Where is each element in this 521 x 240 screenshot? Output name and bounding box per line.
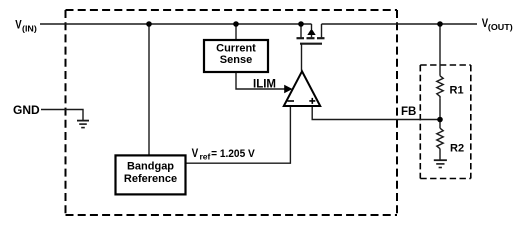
svg-text:Current: Current [216,42,256,54]
svg-text:Bandgap: Bandgap [127,161,174,173]
svg-text:Reference: Reference [124,173,177,185]
svg-text:(IN): (IN) [22,23,37,33]
svg-text:Sense: Sense [220,54,252,66]
svg-text:V: V [192,148,199,160]
svg-text:V: V [15,20,22,32]
svg-text:= 1.205 V: = 1.205 V [211,148,255,160]
svg-text:GND: GND [13,103,40,117]
svg-text:R2: R2 [450,143,464,155]
svg-text:R1: R1 [450,85,464,97]
svg-text:ILIM: ILIM [253,79,276,91]
svg-text:FB: FB [401,106,416,118]
svg-text:ref: ref [200,152,211,162]
svg-text:(OUT): (OUT) [488,22,513,32]
